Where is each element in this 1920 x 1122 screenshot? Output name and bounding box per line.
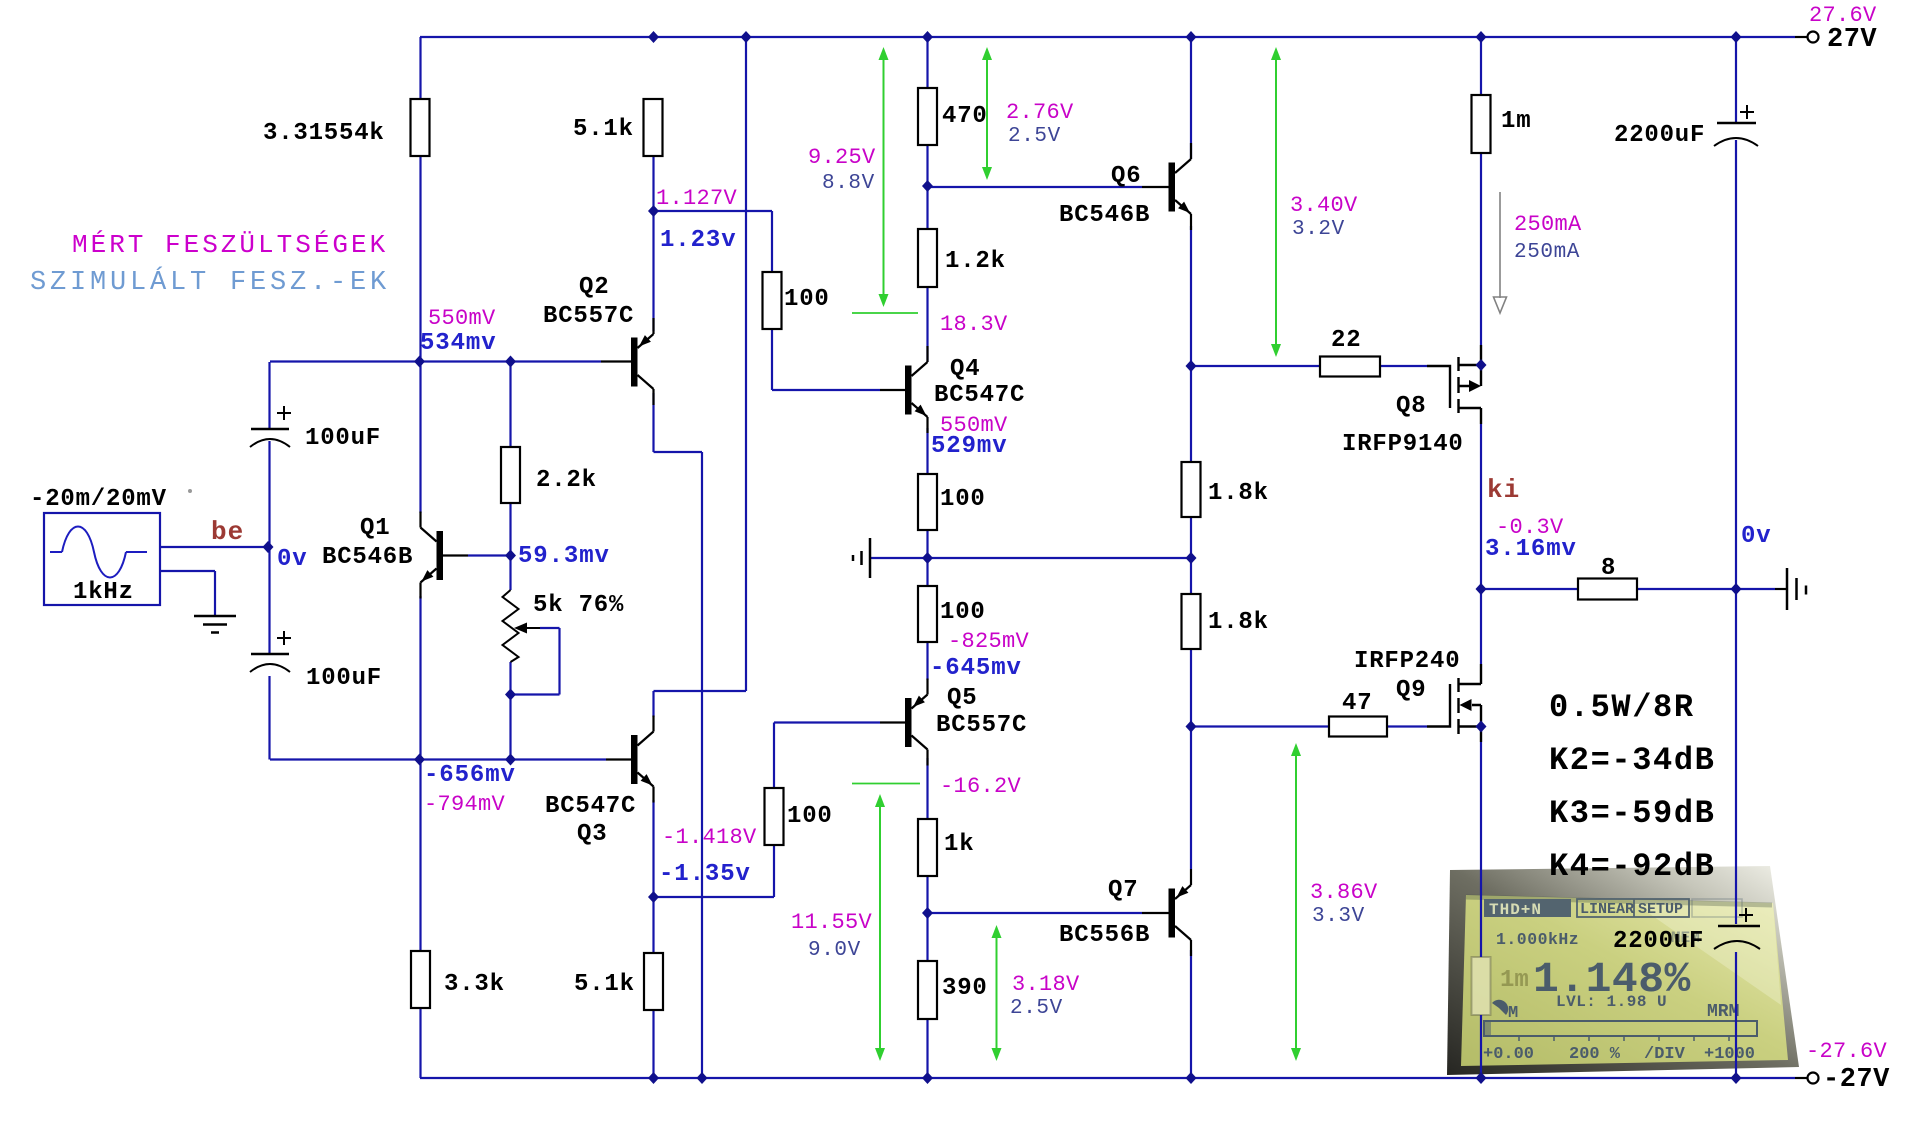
- svg-text:MRM: MRM: [1707, 1002, 1739, 1022]
- svg-text:+0.00: +0.00: [1483, 1045, 1534, 1064]
- svg-text:2.2k: 2.2k: [536, 467, 597, 494]
- svg-text:2200uF: 2200uF: [1613, 928, 1704, 955]
- svg-text:/DIV: /DIV: [1644, 1045, 1686, 1064]
- svg-text:IRFP240: IRFP240: [1354, 648, 1460, 675]
- svg-text:Q4: Q4: [950, 356, 980, 383]
- svg-text:Q6: Q6: [1111, 163, 1141, 190]
- svg-text:1.8k: 1.8k: [1208, 609, 1269, 636]
- svg-text:-794mV: -794mV: [424, 792, 506, 817]
- svg-text:LVL: 1.98 U: LVL: 1.98 U: [1556, 993, 1667, 1011]
- svg-text:-27V: -27V: [1823, 1065, 1890, 1095]
- svg-text:1.23v: 1.23v: [660, 227, 737, 254]
- svg-text:59.3mv: 59.3mv: [518, 543, 610, 570]
- svg-text:SETUP: SETUP: [1638, 901, 1683, 918]
- svg-text:100: 100: [787, 803, 833, 830]
- svg-text:BC557C: BC557C: [936, 712, 1027, 739]
- svg-text:3.86V: 3.86V: [1310, 880, 1378, 905]
- svg-text:+1000: +1000: [1704, 1045, 1755, 1064]
- svg-text:100uF: 100uF: [306, 665, 382, 692]
- svg-text:Q2: Q2: [579, 274, 609, 301]
- svg-text:1k: 1k: [944, 831, 974, 858]
- svg-text:-20m/20mV: -20m/20mV: [30, 486, 167, 513]
- svg-text:-645mv: -645mv: [930, 655, 1022, 682]
- svg-text:Q1: Q1: [360, 515, 390, 542]
- svg-text:THD+N: THD+N: [1489, 901, 1542, 919]
- svg-text:2.76V: 2.76V: [1006, 100, 1074, 125]
- svg-text:BC546B: BC546B: [1059, 202, 1150, 229]
- svg-text:Q3: Q3: [577, 821, 607, 848]
- svg-text:3.31554k: 3.31554k: [263, 120, 385, 147]
- svg-text:1kHz: 1kHz: [73, 579, 134, 606]
- svg-text:100: 100: [784, 286, 830, 313]
- svg-text:8: 8: [1601, 555, 1616, 582]
- svg-text:IRFP9140: IRFP9140: [1342, 431, 1464, 458]
- svg-text:27V: 27V: [1827, 25, 1877, 55]
- svg-text:3.2V: 3.2V: [1292, 218, 1345, 241]
- svg-text:Q9: Q9: [1396, 677, 1426, 704]
- svg-text:-16.2V: -16.2V: [940, 774, 1022, 799]
- svg-text:BC556B: BC556B: [1059, 922, 1150, 949]
- svg-text:ki: ki: [1487, 475, 1520, 505]
- svg-text:Q8: Q8: [1396, 393, 1426, 420]
- svg-text:18.3V: 18.3V: [940, 312, 1008, 337]
- svg-text:-1.35v: -1.35v: [659, 861, 751, 888]
- svg-text:1.2k: 1.2k: [945, 248, 1006, 275]
- svg-text:BC547C: BC547C: [934, 382, 1025, 409]
- svg-text:9.25V: 9.25V: [808, 145, 876, 170]
- svg-text:3.16mv: 3.16mv: [1485, 536, 1577, 563]
- svg-text:3.40V: 3.40V: [1290, 193, 1358, 218]
- svg-text:1.000kHz: 1.000kHz: [1496, 930, 1579, 949]
- svg-text:9.0V: 9.0V: [808, 939, 861, 962]
- svg-text:BC547C: BC547C: [545, 793, 636, 820]
- svg-text:BC546B: BC546B: [322, 544, 413, 571]
- svg-text:250mA: 250mA: [1514, 212, 1582, 237]
- svg-text:3.3V: 3.3V: [1312, 905, 1365, 928]
- svg-text:470: 470: [942, 103, 988, 130]
- svg-text:390: 390: [942, 975, 988, 1002]
- svg-text:Q7: Q7: [1108, 877, 1138, 904]
- svg-text:-825mV: -825mV: [948, 629, 1030, 654]
- svg-text:1m: 1m: [1500, 967, 1529, 994]
- svg-text:0v: 0v: [1741, 523, 1772, 550]
- svg-text:550mV: 550mV: [428, 306, 496, 331]
- svg-text:534mv: 534mv: [420, 330, 497, 357]
- svg-text:K3=-59dB: K3=-59dB: [1549, 795, 1715, 832]
- svg-text:2.5V: 2.5V: [1008, 125, 1061, 148]
- svg-text:K2=-34dB: K2=-34dB: [1549, 742, 1715, 779]
- svg-text:Q5: Q5: [947, 685, 977, 712]
- svg-text:47: 47: [1342, 690, 1372, 717]
- svg-text:5k 76%: 5k 76%: [533, 592, 624, 619]
- svg-text:-27.6V: -27.6V: [1806, 1039, 1888, 1064]
- svg-text:250mA: 250mA: [1514, 241, 1580, 264]
- svg-text:8.8V: 8.8V: [822, 172, 875, 195]
- svg-text:MÉRT FESZÜLTSÉGEK: MÉRT FESZÜLTSÉGEK: [72, 230, 388, 260]
- svg-text:BC557C: BC557C: [543, 303, 634, 330]
- svg-text:100uF: 100uF: [305, 425, 381, 452]
- svg-text:5.1k: 5.1k: [573, 116, 634, 143]
- svg-text:200 %: 200 %: [1569, 1045, 1621, 1064]
- svg-text:529mv: 529mv: [931, 433, 1008, 460]
- svg-text:22: 22: [1331, 327, 1361, 354]
- svg-text:5.1k: 5.1k: [574, 971, 635, 998]
- svg-text:11.55V: 11.55V: [791, 910, 873, 935]
- svg-text:2200uF: 2200uF: [1614, 122, 1705, 149]
- svg-text:-1.418V: -1.418V: [662, 825, 757, 850]
- svg-text:be: be: [211, 517, 244, 547]
- svg-text:0v: 0v: [277, 546, 308, 573]
- svg-text:1.127V: 1.127V: [656, 186, 738, 211]
- svg-text:27.6V: 27.6V: [1809, 3, 1877, 28]
- svg-text:-656mv: -656mv: [424, 762, 516, 789]
- svg-text:100: 100: [940, 599, 986, 626]
- svg-text:1m: 1m: [1501, 108, 1531, 135]
- svg-text:1.8k: 1.8k: [1208, 480, 1269, 507]
- svg-text:2.5V: 2.5V: [1010, 997, 1063, 1020]
- svg-text:0.5W/8R: 0.5W/8R: [1549, 689, 1695, 726]
- svg-text:3.18V: 3.18V: [1012, 972, 1080, 997]
- svg-text:3.3k: 3.3k: [444, 971, 505, 998]
- svg-text:LINEAR: LINEAR: [1580, 901, 1634, 918]
- svg-text:K4=-92dB: K4=-92dB: [1549, 848, 1715, 885]
- svg-text:SZIMULÁLT FESZ.-EK: SZIMULÁLT FESZ.-EK: [30, 266, 390, 298]
- svg-text:100: 100: [940, 486, 986, 513]
